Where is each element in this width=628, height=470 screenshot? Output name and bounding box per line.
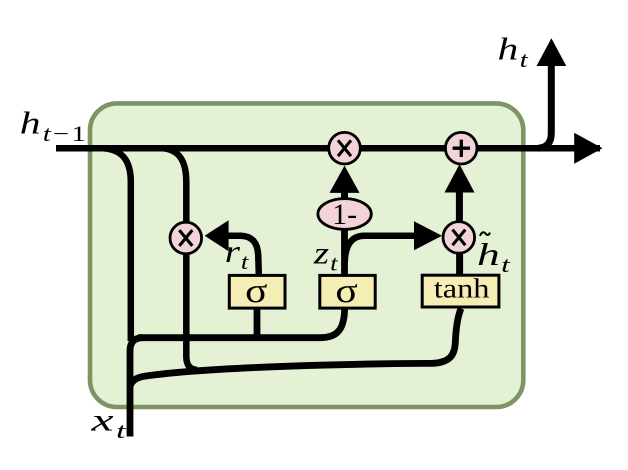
op multiply r [170, 222, 202, 254]
op-box sigma2 (update gate) [320, 275, 375, 308]
arrow: into htilde-multiply (points right) [414, 221, 442, 250]
label htilde_t [477, 237, 512, 277]
wire: stem 1- to main multiply [341, 188, 348, 199]
label h_t (output) [498, 31, 529, 72]
arrow: 1- up into main multiply [330, 166, 360, 193]
op-box tanh [422, 275, 499, 307]
wire: z branch to htilde-multiply [345, 236, 415, 262]
wire: branch A (h to bottom concat) [104, 148, 131, 341]
arrow: into r-multiply (points left) [205, 220, 229, 251]
wire: sigma1 lower stem [254, 306, 261, 341]
op-box sigma1 (reset gate) [229, 275, 285, 308]
wire: r gate output (sigma1 top to r-multiply arrow) [228, 236, 259, 277]
wire: diagonal concat line to tanh [130, 309, 461, 388]
label r_t [225, 233, 250, 274]
wire: branch B (h to r-multiply) [163, 148, 197, 370]
wire: x_t input riser [130, 338, 143, 437]
wire: bottom concat line to sigma gates [138, 309, 345, 338]
svg-text:ht−1: ht−1 [20, 105, 88, 146]
label z_t [313, 235, 339, 276]
label h_{t-1} [20, 105, 88, 146]
op add [445, 132, 477, 164]
svg-text:ht: ht [498, 31, 529, 72]
label htilde tilde mark [480, 232, 490, 236]
wire: z stem (sigma2 top to 1- ellipse) [341, 229, 348, 276]
svg-text:σ: σ [335, 272, 358, 310]
arrow: main line output (right) [574, 133, 602, 164]
op multiply htilde [443, 222, 475, 254]
wire: h_t up branch [538, 64, 551, 148]
op 1-minus ellipse [318, 199, 371, 230]
svg-text:tanh: tanh [434, 274, 490, 304]
svg-text:1-: 1- [332, 198, 357, 231]
arrow: h_t up output [537, 38, 567, 66]
wire: stem htilde-multiply up to add [456, 187, 463, 222]
svg-text:σ: σ [245, 272, 268, 310]
arrow: up into add [445, 164, 475, 192]
label x_t (input) [90, 403, 128, 443]
op multiply main (forget side) [329, 132, 361, 164]
cell body (GRU block) [90, 103, 523, 407]
wire: main h line [56, 145, 600, 152]
wire: stem tanh to htilde-multiply [456, 253, 463, 277]
